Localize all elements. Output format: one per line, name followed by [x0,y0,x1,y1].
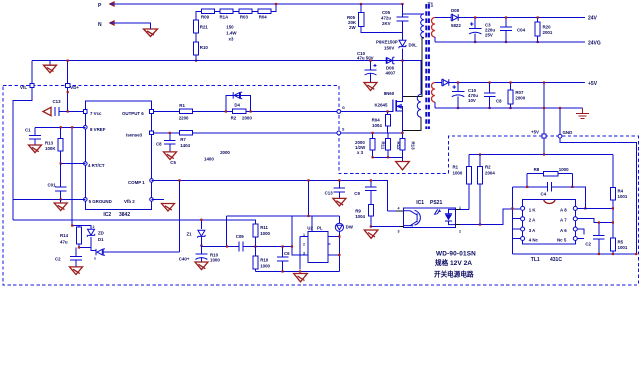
svg-text:C05: C05 [382,10,391,15]
earth ground (5V return) [576,108,589,119]
wire VREF line [35,126,85,128]
svg-text:R1A: R1A [220,15,230,20]
wire TL431 pin6 stub [577,229,584,235]
op-amp U1: PWM IC2 3842 body [84,101,154,218]
zener Z1 [187,219,206,247]
junction P rail taps [275,3,277,5]
ground (feedback rail) [294,274,308,282]
svg-text:2000: 2000 [220,150,230,155]
capacitor C5 sense filter [156,132,176,165]
resistor R14 with zener ZD [60,126,91,247]
capacitor C6b [277,245,290,271]
svg-text:2 A: 2 A [529,218,536,223]
svg-text:3 A: 3 A [529,228,536,233]
wire startup chain drop from P rail [196,4,276,61]
node GND port [558,107,636,254]
svg-text:D0L: D0L [409,43,418,48]
svg-text:100K: 100K [45,146,56,151]
wire +5V feed column [543,83,545,155]
port G on dashed boundary [337,106,345,113]
svg-text:R13: R13 [45,140,54,145]
svg-text:R8: R8 [534,167,540,172]
svg-text:R2: R2 [231,115,237,120]
svg-text:1400: 1400 [204,157,214,162]
resistor R4 [611,155,628,255]
svg-text:R13: R13 [411,142,416,151]
svg-text:5822: 5822 [451,23,461,28]
svg-text:WD-90-01SN: WD-90-01SN [436,251,476,258]
svg-text:C09: C09 [236,234,245,239]
svg-text:R04: R04 [259,15,268,20]
svg-text:2: 2 [93,225,95,229]
svg-text:D08: D08 [451,8,460,13]
transformer T1 aux winding [403,61,421,131]
wire 5V return rail [435,107,583,109]
diode D08 [451,8,461,28]
optocoupler IC1 PS21 [397,200,461,234]
svg-text:C13: C13 [325,191,334,196]
capacitor C2 [55,248,82,267]
svg-text:1: 1 [303,233,305,237]
wire opto LED cathode [460,209,520,225]
svg-text:C13: C13 [53,99,62,104]
svg-text:R04: R04 [372,118,381,123]
svg-text:C6: C6 [284,251,290,256]
resistor R13 sense [400,133,416,157]
resistor R1A [220,9,234,20]
svg-text:150: 150 [226,24,234,29]
wire COMP line [152,180,388,210]
resistor R12 sense [386,133,402,157]
svg-text:Vfb 2: Vfb 2 [124,199,135,204]
svg-text:R03: R03 [240,15,249,20]
svg-text:C4: C4 [541,191,547,196]
ground (aux cap) [364,83,377,91]
svg-text:D4: D4 [234,103,240,108]
wire GND common rail [13,220,256,224]
svg-text:C9: C9 [354,191,360,196]
wire mid feedback row [201,246,291,248]
capacitor C13b comp filter [325,179,346,198]
svg-text:2: 2 [459,230,461,234]
svg-text:PS21: PS21 [430,200,442,206]
svg-text:2001: 2001 [543,30,553,35]
resistor R10 [193,42,208,55]
svg-text:R9: R9 [355,209,361,214]
svg-text:C2: C2 [585,242,591,247]
capacitor C8b 5V [484,81,502,109]
wire 24V rail [435,17,585,19]
svg-text:TL1: TL1 [531,257,540,263]
svg-text:2KV: 2KV [382,21,391,26]
svg-text:8 VREF: 8 VREF [90,127,106,132]
svg-text:A 7: A 7 [560,218,567,223]
resistor R21 [193,20,208,33]
svg-text:1000: 1000 [210,258,220,263]
svg-text:R7: R7 [180,137,186,142]
svg-text:24V: 24V [588,16,598,22]
svg-text:R2: R2 [485,165,491,170]
svg-text:2W: 2W [349,25,356,30]
svg-text:C40+: C40+ [179,257,190,262]
svg-text:1000: 1000 [260,231,270,236]
node N (AC input N) [98,21,114,28]
svg-text:8N60: 8N60 [384,91,395,96]
svg-text:47u: 47u [60,240,68,245]
diode D06 aux rectifier [386,57,396,75]
wire TL431 left bus [512,187,520,254]
svg-text:1 K: 1 K [529,207,537,212]
diode D09 5V rectifier [442,79,444,86]
svg-text:IC1: IC1 [416,200,424,206]
resistor R8 comp [527,167,572,187]
transformer T1 secondary 1 [432,18,435,38]
svg-text:150V: 150V [384,46,394,51]
svg-text:1001: 1001 [618,245,628,250]
capacitor C09 [236,234,245,252]
ground (R9) [364,230,378,238]
capacitor C2b [585,221,604,254]
capacitor C4 comp [512,182,586,210]
svg-text:IC2: IC2 [103,212,111,218]
resistor R11b [253,224,271,248]
resistor R07 5V bleeder [508,81,526,109]
transformer T1 primary winding [403,14,425,38]
svg-text:2: 2 [303,243,305,247]
svg-text:C2: C2 [55,257,61,262]
capacitor C10c 5V electrolytic [452,81,479,109]
svg-text:C04: C04 [517,28,526,33]
svg-text:PL: PL [317,226,323,231]
svg-text:C5: C5 [170,160,176,165]
ground (C13b) [333,198,346,206]
svg-text:1001: 1001 [618,194,628,199]
resistor R7 sense series [179,131,192,148]
IC TL1 431C body [521,200,578,264]
resistor R05 snubber [347,4,403,33]
svg-text:7 Vcc: 7 Vcc [90,111,102,116]
svg-text:A 6: A 6 [560,228,567,233]
port S on dashed boundary [337,128,345,135]
svg-text:C01: C01 [48,183,57,188]
svg-text:VfL: VfL [20,85,27,90]
value label 150 1.4W x3 [226,24,237,41]
svg-text:G: G [342,106,345,110]
svg-text:R5: R5 [618,240,624,245]
svg-text:VD+: VD+ [70,85,79,90]
svg-text:U2: U2 [307,226,313,231]
svg-text:R11: R11 [260,225,268,230]
svg-text:R21: R21 [200,24,209,29]
diode D05 TVS clamp [376,40,417,98]
node P (AC input P) [98,2,114,9]
svg-text:K2645: K2645 [375,103,388,108]
resistor R20 24V bleeder [535,16,553,43]
wire opto pin4 to comp [387,210,396,212]
wire feedback bottom rail [255,271,339,273]
MOSFET Q1 8N60 [375,91,404,133]
svg-text:1000: 1000 [559,167,569,172]
svg-text:4 Nc: 4 Nc [529,237,539,242]
svg-text:4007: 4007 [386,71,396,76]
ground (sense filter) [164,152,177,160]
svg-text:4 RT/CT: 4 RT/CT [88,163,105,168]
svg-text:DW: DW [346,225,354,230]
svg-text:规格 12V 2A: 规格 12V 2A [435,258,472,267]
wire comp-to-diode drop [179,180,181,252]
diode D2 feedback [91,248,180,261]
capacitor C9 with resistor R9 [354,179,376,227]
wire comp branch to U2 [308,180,310,215]
wire pin5 ground line [13,198,86,200]
wire opto pin3 to ground node [371,226,400,228]
svg-text:P6KE150P: P6KE150P [376,40,398,45]
dashed control-section boundary [3,86,638,286]
resistor R09 [201,9,214,20]
capacitor C04 24V [500,16,525,43]
svg-text:Nc 5: Nc 5 [557,237,567,242]
svg-text:N: N [98,22,102,28]
zener DW regulator [335,216,353,272]
svg-text:x3: x3 [229,37,234,42]
svg-text:1000: 1000 [260,264,270,269]
wire TL431 pin8 [577,207,613,209]
svg-text:1004: 1004 [372,123,382,128]
resistor R03 [239,9,252,20]
svg-text:3: 3 [303,252,305,256]
ground (sense resistors) [396,162,410,170]
svg-text:2004: 2004 [485,171,495,176]
resistor R13 timing [45,126,63,163]
junction chain to VD+ rail [195,60,197,62]
svg-text:C1: C1 [25,127,31,132]
svg-text:25V: 25V [485,33,493,38]
wire primary bottom to drain (black) [403,38,424,97]
svg-text:+5V: +5V [588,81,598,87]
capacitor C10 aux electrolytic [357,51,377,83]
svg-text:R09: R09 [201,15,210,20]
svg-text:2000: 2000 [242,115,252,120]
svg-text:C8: C8 [156,142,162,147]
svg-text:24VG: 24VG [588,41,601,47]
capacitor C1 vref bypass [25,127,41,145]
wire VfL drop [13,61,32,220]
svg-text:R11: R11 [381,142,386,150]
svg-text:R07: R07 [515,90,524,95]
svg-text:1.4W: 1.4W [226,31,237,36]
zener diode ZD D1 [78,225,104,249]
node VD+ [66,83,80,90]
svg-text:R1: R1 [453,165,459,170]
wire TL431 pin5 stub [577,238,584,240]
svg-text:OUTPUT 6: OUTPUT 6 [122,111,144,116]
node VfL [20,83,34,90]
wire P rail [110,3,403,5]
wire Vfb to ground [152,198,165,200]
svg-text:Z1: Z1 [187,232,193,237]
ground (C2) [70,267,83,275]
wire sense resistor bottoms [373,157,403,161]
svg-text:GND: GND [563,130,573,135]
svg-text:R20: R20 [543,25,552,30]
svg-text:A 8: A 8 [560,207,567,212]
transformer T1 secondary 2 [432,83,435,103]
resistor R10b [253,247,271,272]
svg-text:x: x [94,257,96,261]
wire divider top [469,154,613,156]
svg-text:D1: D1 [98,237,104,242]
svg-text:C8: C8 [496,99,502,104]
wire RT/CT [61,163,86,165]
wire rail taps down [227,216,340,255]
capacitor C10b below Z1 [179,246,221,263]
svg-text:2000: 2000 [515,96,525,101]
resistor R04 [258,9,271,20]
svg-text:+5V: +5V [531,130,539,135]
svg-text:ZD: ZD [98,231,104,236]
wire TL431 pin7 jog [577,219,613,223]
transformer T1 core [426,3,433,130]
wire gate drive [152,111,393,113]
svg-text:10V: 10V [468,98,476,103]
svg-text:3842: 3842 [119,212,130,218]
ground (IC gnd) [54,199,67,210]
wire current sense line [152,132,403,134]
wire N lead [110,23,151,29]
resistor R04 gate pulldown [372,110,391,132]
svg-text:R1: R1 [179,103,185,108]
svg-text:472u: 472u [381,16,391,21]
svg-text:x 3: x 3 [357,150,364,155]
svg-text:431C: 431C [550,257,562,263]
svg-text:R14: R14 [60,233,69,238]
value label 2000 1/2W x3 [355,140,366,155]
diode D4 with resistor R2 parallel [225,92,253,120]
svg-text:R4: R4 [618,189,624,194]
svg-text:2200: 2200 [179,115,189,120]
wire VD+ rail [32,60,419,62]
svg-text:COMP 1: COMP 1 [128,180,145,185]
ground (Vfb) [162,204,175,212]
svg-text:1004: 1004 [355,214,365,219]
svg-text:1404: 1404 [180,143,190,148]
ground (N input) [144,29,158,37]
resistor R2b divider [478,155,496,225]
capacitor C3 24V electrolytic [469,16,495,43]
wire opto LED anode [460,184,469,209]
capacitor C01 timing [48,164,67,200]
node +5V port [531,130,546,139]
IC U2 error amp box [300,226,339,270]
resistor R1b divider [453,155,472,210]
svg-text:R10: R10 [200,45,209,50]
svg-text:5 GROUND: 5 GROUND [89,199,112,204]
ground (C10b) [195,262,208,270]
wire 5V rail [435,82,585,84]
svg-text:3: 3 [398,230,400,234]
capacitor C13 Vcc bypass [43,99,84,116]
ground (VD+ rail left) [49,61,51,66]
capacitor C05 snubber [381,4,409,40]
resistor R1 gate series 2200 [179,103,193,120]
svg-text:4: 4 [398,207,400,211]
svg-text:R10: R10 [260,258,269,263]
svg-text:开关电源电路: 开关电源电路 [434,270,474,279]
resistor R11 sense [370,133,385,157]
wire VD+ drop to Vcc [67,61,69,112]
ground (C1) [29,145,42,153]
svg-text:Isense3: Isense3 [126,132,143,137]
svg-text:1000: 1000 [453,171,463,176]
wire TL431 bottom rail [512,253,636,255]
wire 24V return rail [435,41,585,43]
resistor R5 [611,238,628,251]
